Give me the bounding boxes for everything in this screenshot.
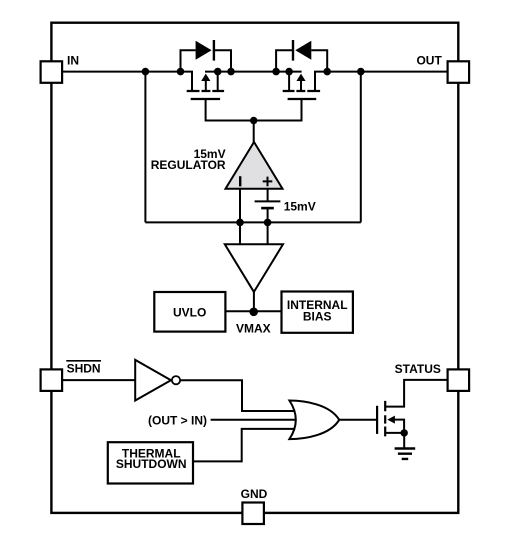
junction dots on bus	[236, 219, 244, 227]
wire: OR gate output to Q1 gate	[339, 419, 376, 421]
pin OUT	[448, 61, 470, 83]
wire: comparator output to VMAX node	[253, 292, 255, 312]
node source-body junction	[401, 429, 408, 436]
transistor M1 body arrow	[205, 80, 207, 92]
wire: U1 minus input down through bus to comparator	[239, 189, 241, 245]
battery V1 15mV offset plates	[255, 200, 281, 202]
wire: source to ground	[403, 433, 405, 448]
U1 minus input mark	[239, 176, 241, 186]
junction dots on top rail	[142, 68, 150, 76]
wire: left vertical from rail to regulator bus	[144, 72, 146, 223]
wire: top rail IN side to M1 drain leg	[51, 72, 192, 91]
svg-text:GND: GND	[241, 487, 268, 501]
inverter U3	[135, 360, 171, 401]
diode D2	[295, 41, 311, 60]
wire: U1 plus input to battery	[267, 189, 269, 202]
svg-text:REGULATOR: REGULATOR	[151, 158, 226, 172]
wire: rail segment M1 source to M2 source	[205, 71, 302, 73]
pin SHDN with overline	[41, 369, 63, 391]
pin GND	[242, 503, 264, 525]
svg-text:STATUS: STATUS	[395, 362, 441, 376]
transistor M1 source leg	[217, 72, 219, 91]
wire: SHDN pin to inverter	[51, 379, 135, 381]
svg-text:UVLO: UVLO	[173, 306, 206, 320]
wire: M2 drain leg to OUT rail	[315, 72, 458, 91]
pin IN	[41, 61, 63, 83]
svg-text:BIAS: BIAS	[303, 310, 332, 324]
block INTERNAL BIAS	[282, 292, 353, 333]
wire: (OUT > IN) comparison input	[211, 419, 300, 421]
transistor M2 gate plate	[288, 98, 317, 100]
wire: gate node to regulator amp	[253, 121, 255, 144]
svg-text:(OUT > IN): (OUT > IN)	[148, 413, 207, 427]
svg-text:SHUTDOWN: SHUTDOWN	[116, 457, 187, 471]
wire: thermal shutdown to OR gate bottom input	[193, 429, 298, 462]
wire: UVLO to INTERNAL BIAS link	[225, 310, 281, 312]
diode D2 cathode bar	[292, 40, 294, 61]
block THERMAL SHUTDOWN	[108, 442, 193, 483]
ground symbol	[395, 449, 416, 459]
OR gate U4	[289, 401, 339, 440]
wire: battery to bus and comparator	[267, 208, 269, 244]
node gate junction	[250, 117, 257, 124]
diode D2 (body diode of M2) wire	[276, 50, 327, 71]
transistor Q1 drain stub and lead to STATUS	[385, 380, 458, 407]
wire: regulator input bus	[145, 221, 360, 223]
block UVLO	[154, 292, 225, 332]
svg-text:IN: IN	[67, 54, 79, 68]
transistor Q1 gate bar	[376, 406, 378, 434]
diode D1	[196, 41, 212, 60]
svg-text:OUT: OUT	[416, 53, 442, 67]
comparator U2	[225, 244, 283, 292]
diode D1 cathode bar	[213, 40, 215, 61]
wire: inverter to OR gate top input	[180, 380, 298, 411]
outer IC boundary box	[51, 23, 458, 513]
transistor M1 gate lead	[206, 99, 254, 120]
op-amp U1 15mV regulator	[226, 142, 283, 189]
inverter U3 bubble	[172, 376, 180, 384]
U1 plus input mark	[263, 177, 273, 187]
transistor Q1 body arrow	[394, 420, 404, 433]
svg-text:VMAX: VMAX	[236, 322, 271, 336]
svg-text:15mV: 15mV	[284, 200, 316, 214]
transistor M1 ticks	[187, 90, 224, 92]
transistor Q1 source stub	[385, 432, 404, 434]
svg-text:SHDN: SHDN	[67, 362, 101, 376]
transistor M2 gate lead	[254, 99, 302, 120]
transistor M2 source leg	[288, 72, 290, 91]
transistor Q1 dashed channel bar	[384, 401, 386, 437]
pin STATUS	[448, 369, 470, 391]
diode D1 (body diode of M1) wire	[181, 50, 232, 71]
transistor M1 gate plate	[191, 98, 220, 100]
node VMAX	[249, 308, 258, 317]
transistor M2 body arrow	[300, 80, 302, 92]
transistor M2 ticks	[283, 90, 320, 92]
wire: right vertical from rail to regulator bus	[360, 72, 362, 223]
